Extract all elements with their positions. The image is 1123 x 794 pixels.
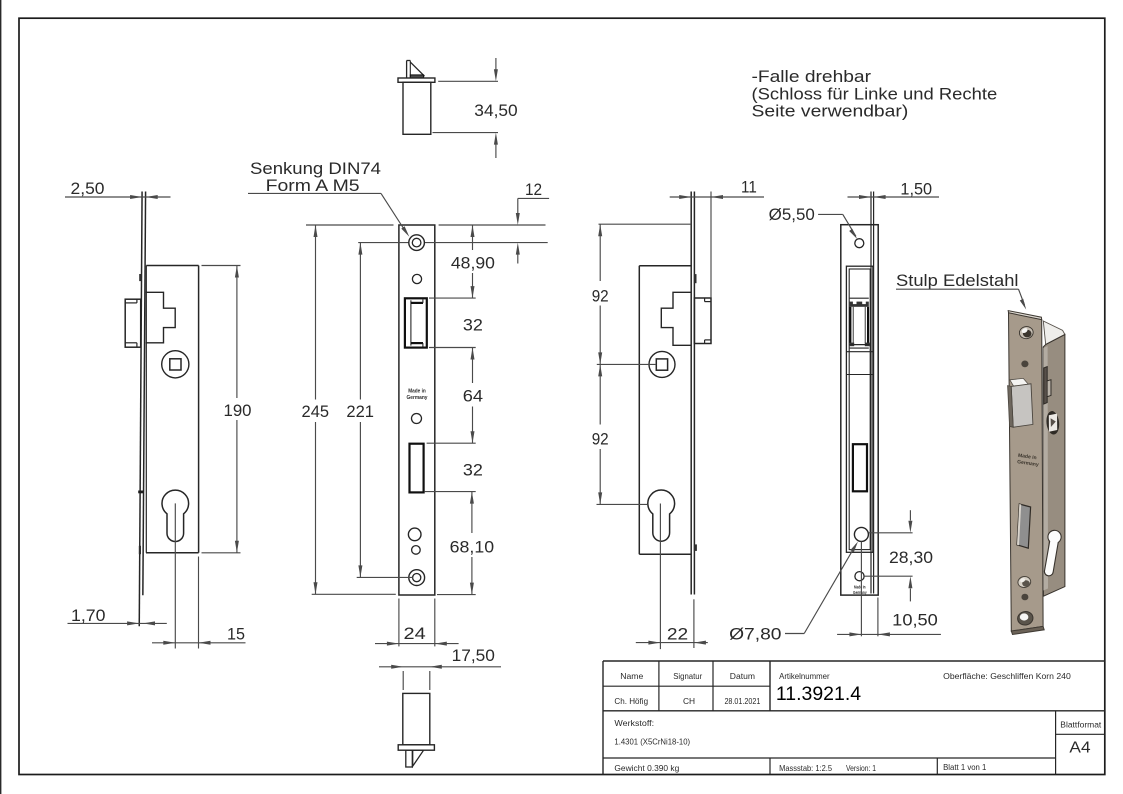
svg-text:Blattformat: Blattformat [1060,720,1102,730]
dim 48,90 dimension line [472,225,474,250]
svg-text:(Schloss für Linke und Rechte: (Schloss für Linke und Rechte [752,85,998,103]
svg-text:245: 245 [302,403,330,421]
svg-text:Signatur: Signatur [673,671,702,681]
latch top extension line [429,297,476,299]
svg-text:Germany: Germany [407,395,429,401]
svg-text:CH: CH [683,696,695,706]
dim 22 extension plate edge [693,599,695,648]
svg-text:1,50: 1,50 [900,181,932,199]
view B top countersunk screw hole [409,235,425,251]
page left edge line [0,0,2,794]
svg-text:Senkung DIN74: Senkung DIN74 [250,160,381,178]
svg-text:48,90: 48,90 [451,255,495,273]
3d mid countersunk hole [1017,575,1032,588]
dim 12 arrows [517,198,519,213]
3d body top face [1043,321,1065,345]
svg-text:Form A M5: Form A M5 [266,177,360,195]
view B latch top bar [411,302,423,304]
svg-text:92: 92 [592,288,609,306]
dim 12 horizontal line [518,197,549,199]
title block left edge [602,661,604,774]
3d stulp bottom edge face [1011,626,1044,634]
dim 15 dimension line [152,642,246,644]
dim 28,30 upper extension [869,532,913,534]
svg-text:Blatt 1 von 1: Blatt 1 von 1 [943,762,986,772]
svg-text:11.3921.4: 11.3921.4 [776,683,861,705]
3d stulp lip inner band [1043,346,1048,591]
title block outer top line [603,660,1105,662]
dim 221 dimension line [359,243,361,400]
dim 11 extension line latch face [710,192,712,298]
view D big hole [854,527,868,541]
svg-text:Made in: Made in [854,585,866,591]
svg-text:28.01.2021: 28.01.2021 [724,696,760,706]
svg-text:Name: Name [620,671,643,681]
dim 92 upper extension top [599,223,692,225]
3d latch wedge front face [1011,384,1033,427]
svg-text:24: 24 [404,625,426,643]
view A lock case bottom edge [146,552,199,554]
bottom detail latch stem [406,750,413,767]
3d top countersunk hole [1018,325,1034,339]
view A latch head top lip [125,302,137,304]
3d stulp front face [1009,313,1044,631]
view C stulp plate side edge lines [690,192,692,595]
dim 12 extension right of faceplate top [439,224,546,226]
svg-text:Datum: Datum [730,671,755,681]
view C latch head lips [705,301,711,303]
label diameter 7,80 leader [785,633,804,635]
view A follower circle [162,351,189,378]
view A screw tab upper [139,274,141,281]
dim 28,30 arrows [909,510,911,520]
top detail latch hatched strip [410,75,423,78]
3d follower hole [1045,410,1060,435]
svg-text:Seite verwendbar): Seite verwendbar) [752,103,909,121]
faceplate bottom right extension [437,594,476,596]
dim 24 dimension line [375,643,459,645]
view C latch head block [694,298,711,344]
view A lock case right edge [198,266,200,553]
dim 1,70 dimension line [68,622,167,624]
latch bottom extension line [429,347,476,349]
dim 92 upper dimension line [599,224,601,281]
svg-text:28,30: 28,30 [889,549,933,567]
3d latch notch on right face [1044,367,1051,404]
title block header underline [603,685,770,687]
dim 34,50 extension bottom [433,132,499,134]
view C lock case bottom edge [639,553,691,555]
dim 17,50 extension lines [402,671,404,690]
view A lock case left edge [145,266,147,553]
svg-text:64: 64 [463,388,483,406]
dim 24 extension left [398,599,400,647]
svg-text:Oberfläche: Geschliffen Korn: Oberfläche: Geschliffen Korn 240 [943,671,1071,681]
title block v blattformat [1055,711,1057,775]
view C lock case left edge [638,266,640,555]
label leader line [248,192,381,194]
dim 28,30 lower extension [864,575,912,577]
deadbolt bottom extension line [424,491,475,493]
top detail flange [398,78,435,82]
title block blattformat divider [1056,733,1105,735]
3d made in germany smudge [1017,453,1040,468]
view A screw tab lower [139,546,141,554]
dim 34,50 extension top [438,80,498,82]
view B small hole upper [412,274,421,283]
view B hole centreline top [358,242,548,244]
dim 68,10 dimension line [471,492,473,533]
svg-text:12: 12 [525,181,542,199]
dim 10,50 extension hole centreline [860,542,862,637]
dim 34,50 arrows [495,58,497,71]
title block v name-signatur [658,661,660,711]
3d deadbolt slot [1017,504,1031,548]
view A latch head block [125,299,141,347]
dim 10,50 extension plate edge [877,598,879,637]
3d stulp top bevel face [1008,311,1041,320]
dim 190 extension line bottom [202,552,241,554]
title block line above gewicht row [603,757,1056,759]
view A latch stepped body [146,292,175,343]
dim 1,50 dimension line [848,196,940,198]
dim 15 extension line keyhole centreline [174,503,176,648]
3d latch wedge left edge [1008,386,1014,428]
view C latch stepped body [661,292,691,345]
svg-text:15: 15 [227,626,245,644]
view B hole lower small [412,546,421,555]
dim 245 extension top [306,224,394,226]
dim 22 dimension line [636,642,708,644]
svg-text:Gewicht 0.390 kg: Gewicht 0.390 kg [614,763,679,773]
svg-text:Ch. Höfig: Ch. Höfig [614,696,648,706]
view A follower square [170,359,181,370]
svg-text:1,70: 1,70 [71,607,106,625]
dim 92 lower dimension line [599,364,601,424]
view D latch guide thin line [850,297,869,299]
view A euro keyhole [162,490,189,541]
dim 11 dimension line [670,196,764,198]
title block v gewicht-massstab [769,758,771,774]
dim 2,50 dimension line [65,196,171,198]
dim 64 dimension line [472,348,474,384]
svg-text:17,50: 17,50 [452,647,495,665]
dim 17,50 dimension line [379,666,501,668]
svg-text:22: 22 [667,626,688,644]
svg-text:2,50: 2,50 [71,180,105,198]
view A screw tab middle [138,491,143,494]
view B latch bottom bar [411,342,423,344]
view D latch guide dark bar [850,302,869,307]
dim 15 extension line case edge [198,557,200,649]
dim 245 dimension line [315,225,317,400]
bottom detail latch body [403,693,430,744]
svg-text:A4: A4 [1069,740,1090,757]
view B deadbolt opening [410,444,424,493]
dim 190 dimension line [236,266,238,399]
svg-text:Version: 1: Version: 1 [846,763,876,773]
title block v signatur-datum [712,661,714,711]
view A lock case top edge [146,265,198,267]
svg-text:Artikelnummer: Artikelnummer [779,671,830,681]
svg-text:92: 92 [592,431,609,449]
view B faceplate outline [399,225,435,595]
top detail latch bevel edge [406,61,408,78]
bottom detail latch bevel triangle [413,750,424,766]
view D latch guide lower lines [850,347,869,349]
view D cavity inner rectangle [849,269,870,550]
dim 92 upper follower centreline [597,363,656,365]
bottom detail flange [398,745,434,750]
view D deadbolt rectangle [853,444,867,491]
view B small hole middle [412,414,422,424]
3d latch wedge top face [1010,378,1029,386]
title block v datum-artikel [769,661,771,711]
dim 245 extension bottom [312,593,396,595]
view C screw tab upper [694,274,697,283]
view C lock case top edge [639,265,691,267]
top detail latch body [403,82,431,134]
view D stulp lip edge lines [870,192,872,594]
view A stulp plate side edge (back line) [143,192,146,596]
svg-text:-Falle drehbar: -Falle drehbar [752,68,872,86]
dim 24 extension right [434,599,436,647]
svg-text:Stulp Edelstahl: Stulp Edelstahl [896,272,1019,290]
view B latch inner left line [410,300,412,345]
label diameter 5,50 leader [818,213,843,215]
view D latch guide bottom bracket [850,343,855,347]
svg-text:Germany: Germany [853,590,867,596]
3d body right face [1043,335,1065,597]
3d small hole upper [1021,361,1028,368]
dim 190 extension line top [202,265,241,267]
svg-text:32: 32 [463,462,483,480]
3d small hole lower [1021,594,1028,601]
svg-text:34,50: 34,50 [474,102,517,120]
title block v version-blatt [936,758,938,774]
view D backplate outline [841,225,878,595]
svg-text:Made in: Made in [408,389,426,395]
view D top screw hole [855,239,864,248]
view B bottom countersunk screw hole [409,570,425,586]
view A latch head bottom lip [125,342,137,344]
svg-text:68,10: 68,10 [450,539,494,557]
svg-text:Ø5,50: Ø5,50 [769,206,815,224]
svg-text:Werkstoff:: Werkstoff: [614,718,654,728]
view D cavity outer rectangle [846,266,873,552]
title block row line under names [603,710,1105,712]
3d keyhole on right face [1043,530,1062,577]
view A stulp plate side edge (front line) [139,192,142,627]
dim 10,50 dimension line [837,633,941,635]
svg-text:1.4301 (X5CrNi18-10): 1.4301 (X5CrNi18-10) [614,737,690,747]
view C screw tab lower [694,544,697,551]
svg-text:190: 190 [224,402,252,420]
svg-text:32: 32 [463,317,483,335]
view B hole lower big [408,528,421,541]
svg-text:221: 221 [346,403,374,421]
deadbolt top extension line [427,442,476,444]
svg-text:11: 11 [741,179,757,197]
svg-text:10,50: 10,50 [892,612,938,630]
view D latch guide vertical rails [849,307,851,343]
svg-text:Ø7,80: Ø7,80 [729,626,781,644]
view B latch opening outer [405,298,427,347]
dim 221 extension bottom [357,576,413,578]
dim 92 lower keyhole centreline [597,503,648,505]
top detail latch bevel hypotenuse [410,62,424,76]
view C euro keyhole [648,490,675,541]
svg-text:Massstab: 1:2.5: Massstab: 1:2.5 [779,763,832,773]
3d bottom countersunk hole [1016,610,1034,626]
dim 22 extension keyhole centreline [659,504,661,650]
view D small hole [855,572,864,581]
view C follower square [656,359,667,370]
view C follower circle [649,351,675,377]
